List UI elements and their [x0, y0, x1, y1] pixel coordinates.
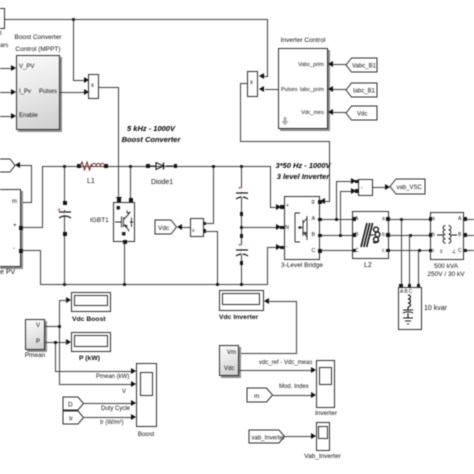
- capacitor C1 (boost input): [64, 166, 65, 285]
- voltage measurement block (VSC): [358, 179, 373, 196]
- wire: PV m port to goto tag: [15, 162, 20, 168]
- svg-text:m: m: [254, 393, 259, 400]
- node: phase B tap to measurement: [339, 234, 342, 237]
- svg-text:D: D: [68, 401, 73, 408]
- wire: L2 b to transformer: [389, 235, 430, 236]
- wire: Pulses from Inverter Control to X2: [265, 89, 278, 90]
- wire: L2 c to transformer: [389, 250, 430, 251]
- wire: VSC measurement to vab_VSC tag: [373, 187, 386, 188]
- goto tag Vdc (boost voltage): [155, 220, 177, 234]
- wire: Vdc boost into display: [66, 297, 71, 303]
- wire: IGBT emitter to bottom rail: [124, 243, 125, 285]
- voltage measurement block (boost): [190, 218, 204, 238]
- annotation: 5 kHz - 1000V Boost Converter: [110, 123, 192, 145]
- product block X1: [88, 74, 99, 99]
- wire: V into scope: [59, 384, 132, 385]
- wire: source to top rail: [5, 19, 267, 20]
- node: cap C1 top: [63, 165, 66, 168]
- svg-text:Vabc_B1: Vabc_B1: [352, 64, 377, 70]
- subsystem MPPT controller: [16, 55, 60, 130]
- node: phase A tap to measurement: [335, 218, 338, 221]
- wire: PV - output down to bottom rail: [22, 250, 41, 251]
- from tag D: [63, 397, 84, 410]
- Diode1 label: [151, 179, 173, 187]
- wire: Vm to Vdc Inverter display (flipped input): [264, 298, 269, 304]
- three-phase filter L2: [352, 211, 389, 259]
- IGBT1 block: [113, 202, 136, 242]
- wire: bottom rail to bridge -: [267, 247, 268, 285]
- subsystem Vm/Vdc: [219, 345, 240, 377]
- goto tag (PV measurement, cut off): [0, 159, 16, 172]
- wire: bridge A to L2 A: [321, 219, 353, 220]
- label fragment under source block: [0, 31, 2, 38]
- L1 label: [87, 178, 95, 186]
- node: DC midpoint N: [240, 226, 243, 229]
- goto tag vab_Inverter: [249, 430, 285, 443]
- wire: V measurement output to Vdc tag: [182, 227, 190, 228]
- node: emitter to bottom rail: [123, 283, 126, 286]
- wire: X2 output to bridge gate g: [240, 83, 247, 84]
- wire: taps down to load: [401, 218, 402, 285]
- wire: L2 a to transformer: [389, 219, 430, 220]
- three-phase load 10 kvar: [398, 287, 422, 330]
- wire: V_PV input: [0, 68, 12, 69]
- display Vdc Inverter: [219, 290, 264, 311]
- svg-text:Vdc: Vdc: [158, 225, 170, 232]
- wire: bridge B to L2 B: [321, 235, 353, 236]
- display P (kW): [71, 332, 112, 352]
- node: load tap phase c: [418, 249, 421, 252]
- scope Inverter: [316, 360, 336, 408]
- IGBT1 label: [90, 217, 109, 225]
- svg-text:+: +: [57, 207, 61, 214]
- wire: Pmean(kW) into scope: [55, 371, 132, 372]
- node: cap C1 bottom: [63, 283, 66, 286]
- wire: I_Pv input: [0, 92, 12, 93]
- subsystem Pmean: [25, 319, 45, 350]
- node: load tap phase a: [400, 218, 403, 221]
- node: top rail junction: [72, 18, 75, 21]
- node: IGBT collector tap: [129, 165, 132, 168]
- wire: vab into scope: [285, 436, 311, 437]
- wire: Mod. Index into Inverter scope: [273, 395, 311, 396]
- scope Vab_Inverter: [316, 422, 331, 451]
- wire: Iabc_B1 tag to inverter control: [332, 89, 347, 90]
- wire: vdc_ref - Vdc_meas into Inverter scope: [239, 370, 311, 371]
- svg-text:Vdc: Vdc: [357, 112, 367, 118]
- wire: PV + output up to DC rail: [22, 227, 43, 228]
- wire: Pmean V output: [45, 326, 60, 327]
- wire: Ir into scope: [84, 417, 132, 418]
- node: load tap phase b: [409, 234, 412, 237]
- 10 kvar label: [424, 305, 447, 313]
- source block (cut off, top-left): [0, 8, 5, 29]
- wire: top rail to bridge +: [270, 166, 271, 207]
- PV array block (cut off): [0, 189, 21, 267]
- subsystem Inverter Control: [278, 48, 328, 129]
- diode Diode1: [146, 164, 150, 168]
- wire: grid stubs: [466, 219, 474, 220]
- DC link capacitor C3 (lower): [240, 234, 244, 238]
- display Vdc Boost: [71, 292, 112, 312]
- svg-text:vab_VSC: vab_VSC: [397, 185, 423, 191]
- node: DC link cap tap: [240, 165, 243, 168]
- scope Boost: [136, 363, 157, 427]
- L2 label: [364, 262, 372, 270]
- wire: junction down to product X1 input 1: [73, 19, 74, 81]
- wire: V+ to top rail: [204, 223, 214, 224]
- annotation: 3*50 Hz - 1000V 3 level inverter: [265, 160, 341, 182]
- transformer 500 kVA: [430, 212, 464, 260]
- from tag m: [247, 388, 273, 402]
- Inverter Control title: [272, 37, 334, 45]
- product block X2 (flipped): [247, 71, 258, 97]
- wire: Enable input: [0, 116, 12, 117]
- svg-text:vab_Inverter: vab_Inverter: [252, 435, 285, 441]
- wire: midpoint N to bridge: [242, 227, 276, 228]
- svg-text:+: +: [238, 242, 242, 249]
- wire: X1 output to IGBT gate: [99, 87, 119, 88]
- DC link capacitor C2 (upper): [241, 166, 242, 285]
- wire: top rail down to product X2 input 1: [267, 19, 268, 77]
- wire: Duty Cycle into scope: [84, 403, 132, 404]
- wire: Vabc_B1 tag to inverter control: [332, 64, 347, 65]
- from tag Ir: [63, 411, 84, 424]
- Boost Converter Control (MPPT) title: [7, 32, 69, 55]
- wire: rail down to IGBT collector: [130, 166, 131, 202]
- wire: Vdc tag to inverter control: [332, 112, 347, 113]
- from tag Vdc: [346, 106, 377, 120]
- 3-Level Bridge label: [277, 262, 327, 270]
- wire: P into display: [66, 339, 71, 345]
- svg-text:Iabc_B1: Iabc_B1: [353, 89, 376, 95]
- from tag Iabc_B1: [346, 83, 377, 97]
- wire: V- to bottom rail: [204, 231, 218, 232]
- wire: Pmean P output: [45, 342, 56, 343]
- from tag Vabc_B1: [346, 58, 377, 72]
- wire: bridge C to L2 C: [321, 250, 353, 251]
- DC top rail: [42, 166, 271, 167]
- 3-Level Bridge block: [284, 196, 320, 261]
- inductor L1 (series RL branch): [77, 164, 81, 168]
- bottom rail: [40, 284, 268, 285]
- goto tag vab_VSC: [390, 179, 425, 194]
- svg-text:+: +: [238, 185, 242, 192]
- PV array label: [0, 269, 15, 277]
- wire: Pulses to product X1: [60, 92, 84, 93]
- transformer labels: [421, 263, 471, 279]
